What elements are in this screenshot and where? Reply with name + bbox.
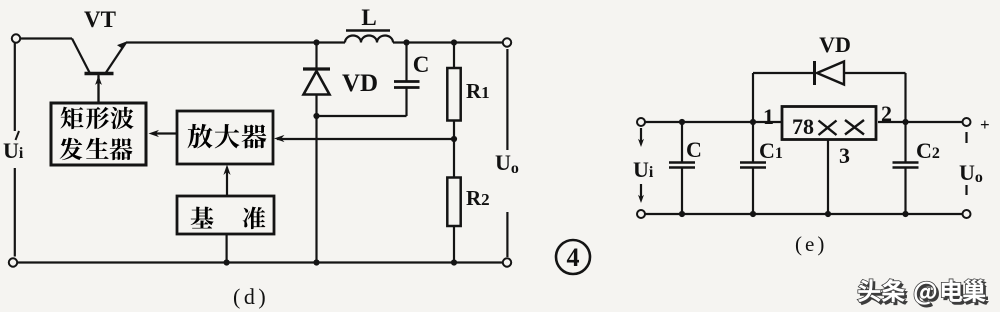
wire: bottom rail (d) (17, 261, 503, 263)
wire: (e) top rail left of regulator (645, 121, 781, 123)
wire: amplifier to generator with arrow (149, 130, 178, 137)
label L with underline (346, 5, 390, 31)
node: C2 bottom (902, 211, 908, 217)
wire: (e) top rail right of regulator (878, 121, 963, 123)
terminal: (e) output - (963, 210, 971, 218)
wire: generator output to base (97, 76, 99, 103)
node: R2 bottom junction (451, 259, 457, 265)
wire: diode bottom to capacitor bottom (317, 115, 407, 117)
label Ui (e) with arrows (638, 128, 644, 203)
terminal: (e) output + (963, 118, 971, 126)
svg-text:VT: VT (84, 7, 116, 32)
wire: inductor to output terminal (393, 41, 503, 43)
box: amplifier 放大器 (177, 111, 273, 164)
svg-text:1: 1 (763, 104, 774, 129)
label Uo (e) with link dashes (965, 132, 967, 195)
box: reference 基准 (177, 196, 274, 234)
node: feedback junction R1/R2 (451, 136, 457, 142)
svg-text:C: C (686, 137, 702, 162)
svg-text:Ui: Ui (633, 157, 654, 182)
node: diode VD top junction (313, 39, 319, 45)
terminal: (e) input + (637, 118, 645, 126)
wire: reference to bottom rail (226, 234, 228, 263)
resistor R1 (447, 43, 460, 140)
diode VD (freewheel) (303, 43, 330, 117)
svg-text:VD: VD (819, 32, 851, 57)
box: rectangular-wave generator 矩形波发生器 (51, 103, 146, 165)
capacitor C2 (893, 122, 919, 214)
transistor Q VT (72, 39, 127, 104)
wire: reference to amplifier with arrow (223, 165, 230, 197)
svg-text:Ui: Ui (3, 138, 24, 163)
wire: collector to inductor (126, 41, 345, 43)
diode VD (e) (815, 61, 845, 85)
label circled 4 (556, 240, 590, 274)
svg-text:C2: C2 (916, 138, 940, 163)
node: C1 top (750, 119, 756, 125)
terminal: (e) input - (637, 210, 645, 218)
watermark 头条@电巢 (860, 282, 988, 308)
terminal: output - terminal (503, 258, 511, 266)
wire: bypass top left segment (753, 72, 814, 74)
wire: output right link lower (506, 212, 508, 257)
wire: feedback to amplifier with arrow (274, 135, 454, 142)
node: C top (679, 119, 685, 125)
svg-text:VD: VD (342, 70, 378, 97)
node: R1 top junction (451, 39, 457, 45)
wire: input top wire (21, 37, 73, 39)
node: C bottom (679, 211, 685, 217)
capacitor C (e) (669, 122, 695, 214)
node: C1 bottom (750, 211, 756, 217)
wire: output right link upper (506, 49, 508, 150)
node: diode bottom junction (313, 113, 319, 119)
svg-text:+: + (980, 115, 990, 134)
wire: bypass right vertical (904, 73, 906, 122)
node: reference bottom junction (224, 259, 230, 265)
capacitor C1 (740, 122, 766, 214)
wire: pin 3 to ground rail (827, 140, 829, 215)
decoration tick above Ui (16, 131, 20, 140)
node: capacitor C top junction (403, 39, 409, 45)
node: diode column bottom junction (313, 259, 319, 265)
text 矩形波 (60, 107, 133, 130)
capacitor C (394, 43, 420, 88)
svg-text:(d): (d) (233, 284, 269, 309)
svg-text:R2: R2 (466, 186, 490, 210)
svg-text:Uo: Uo (495, 150, 519, 177)
svg-text:2: 2 (881, 101, 892, 126)
inductor L (345, 36, 393, 43)
svg-text:R1: R1 (466, 79, 490, 103)
svg-text:78: 78 (792, 114, 814, 139)
wire: diode column vertical (315, 116, 317, 263)
svg-text:Uo: Uo (959, 160, 983, 186)
svg-text:C: C (413, 52, 430, 77)
svg-text:3: 3 (839, 143, 850, 168)
resistor R2 (447, 139, 460, 263)
text 基 准 (191, 207, 266, 229)
wire: bypass top right segment (844, 72, 906, 74)
text 发生器 (60, 138, 133, 161)
svg-text:L: L (361, 5, 376, 30)
wire: input left rail upper (14, 43, 16, 131)
terminal: input + terminal (12, 34, 20, 42)
terminal: output + terminal (503, 38, 511, 46)
wire: (e) bottom rail (645, 213, 963, 215)
text 放大器 (188, 124, 267, 148)
wire: capacitor C bottom lead (405, 88, 407, 117)
svg-text:(e): (e) (795, 232, 827, 256)
node: C2 top (902, 119, 908, 125)
svg-text:4: 4 (567, 243, 580, 272)
IC: 78xx regulator box (782, 107, 876, 140)
terminal: input - terminal (9, 258, 17, 266)
svg-text:C1: C1 (759, 138, 783, 163)
node: pin3 bottom (825, 211, 831, 217)
wire: input left rail lower (14, 168, 16, 257)
wire: bypass left vertical (752, 73, 754, 122)
